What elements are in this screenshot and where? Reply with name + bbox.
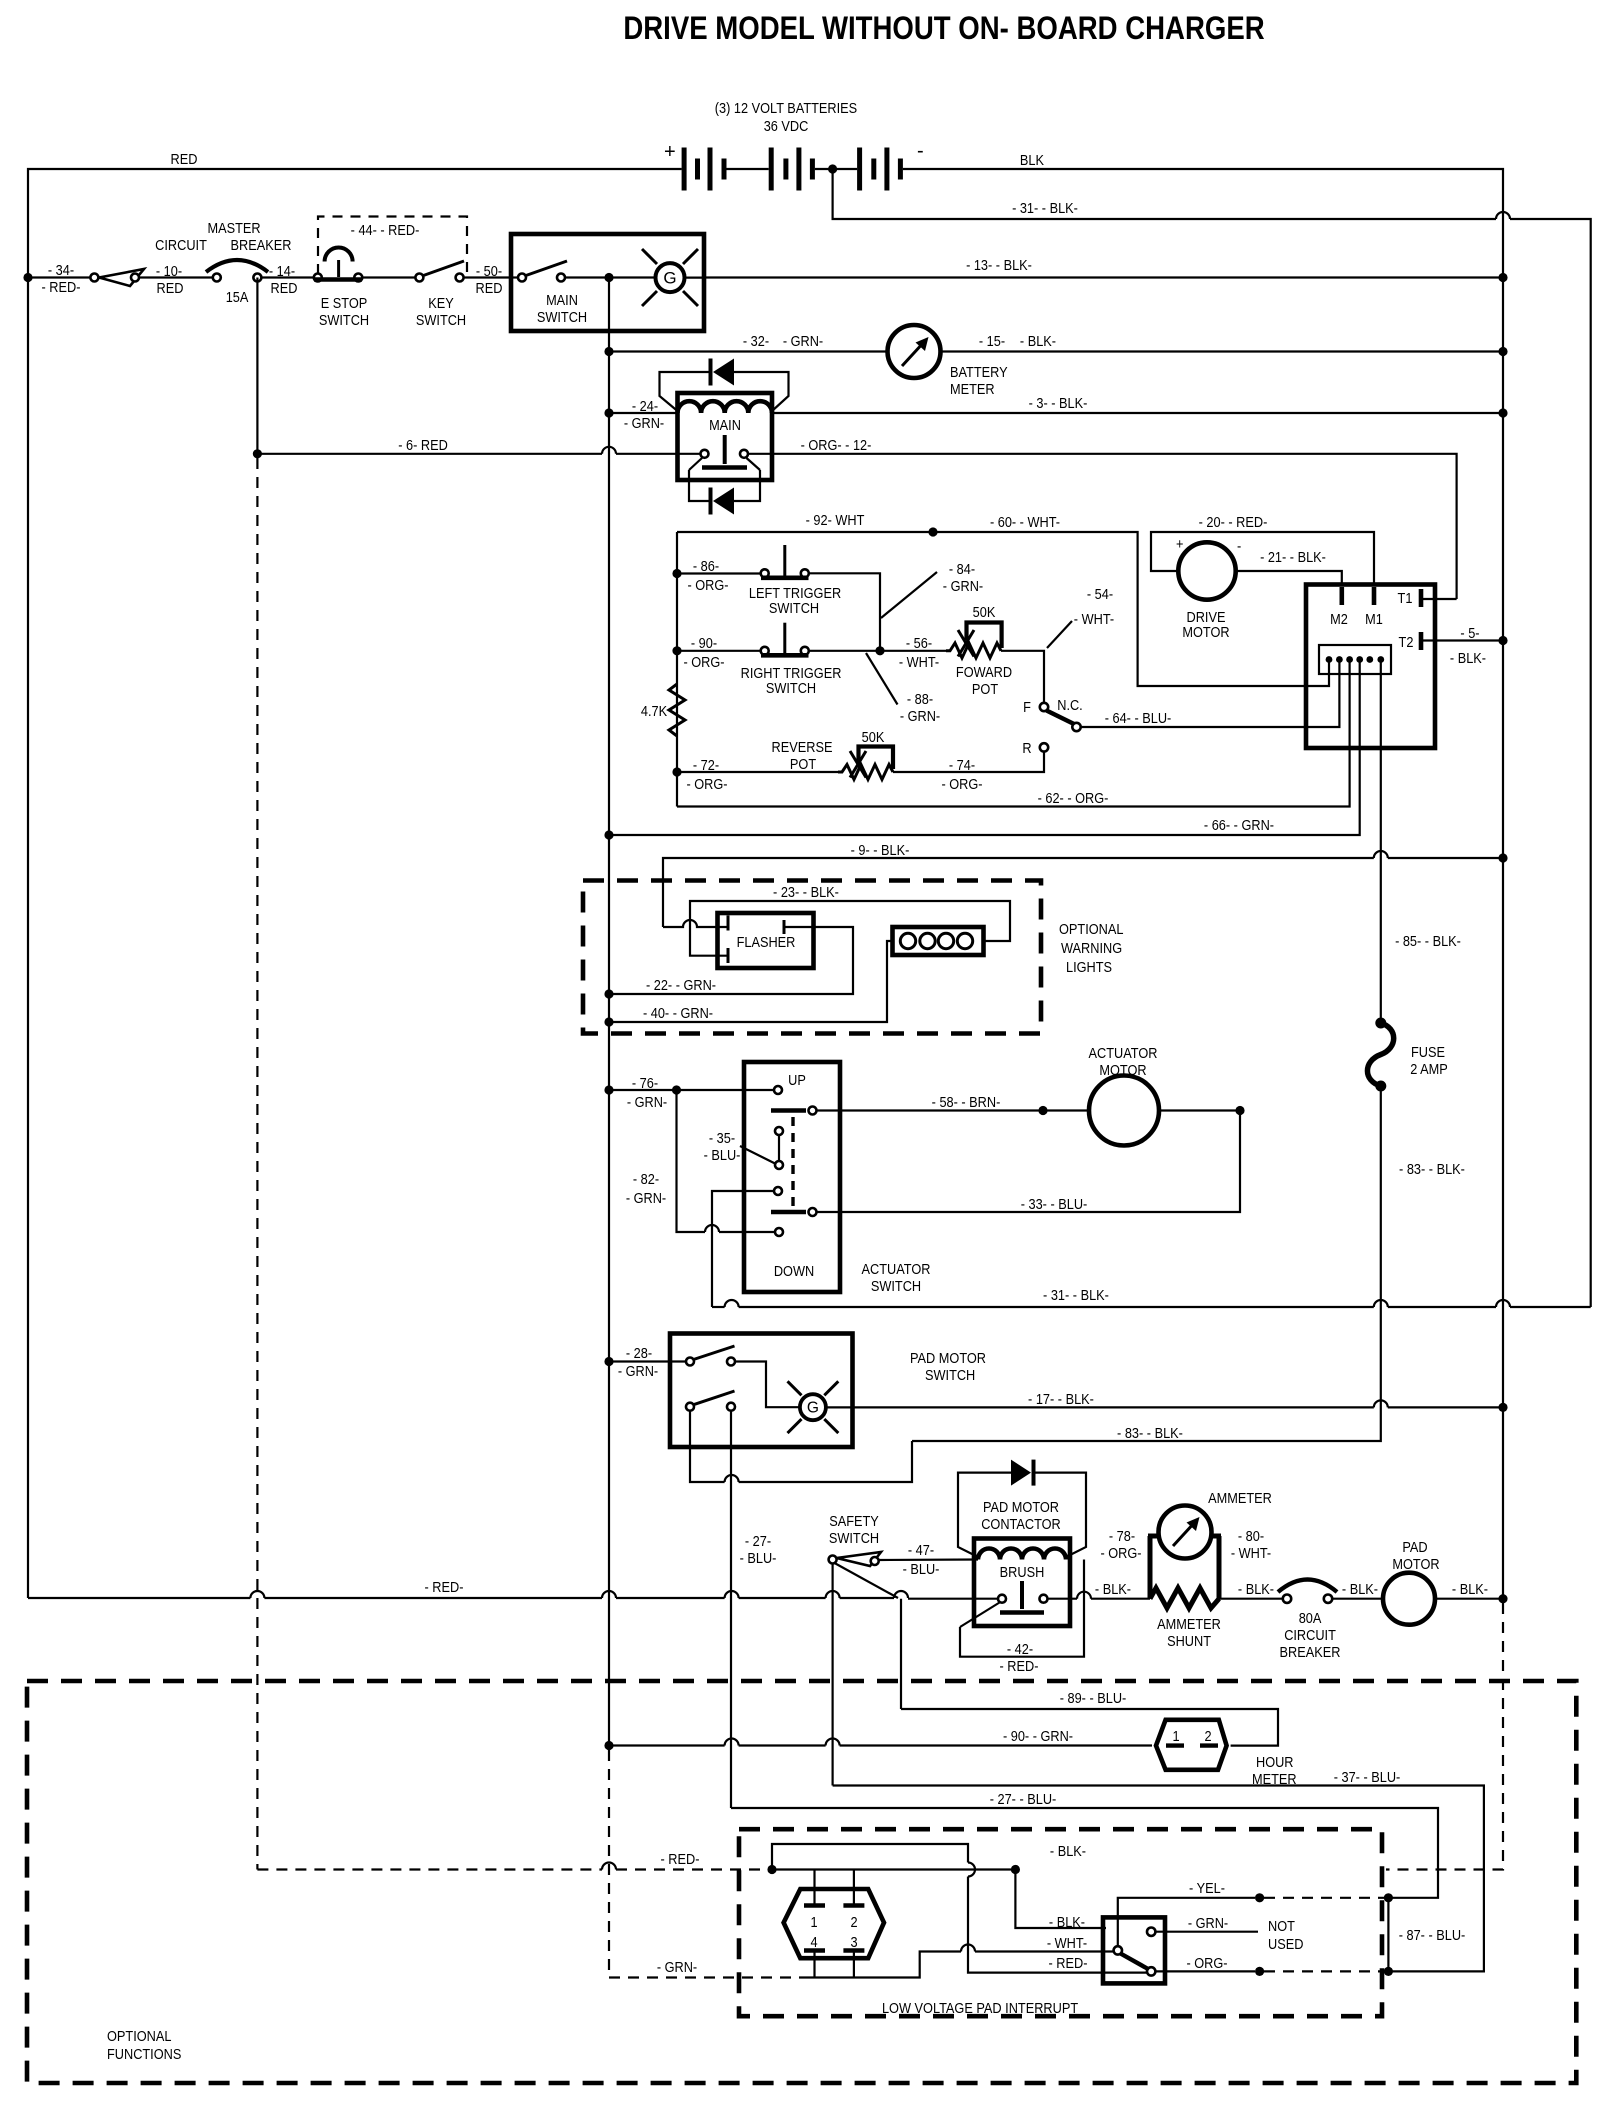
svg-text:- 88-: - 88- bbox=[907, 691, 933, 707]
controller box bbox=[1306, 585, 1435, 749]
svg-text:- 42-: - 42- bbox=[1007, 1641, 1033, 1657]
svg-text:- 27-: - 27- bbox=[745, 1533, 771, 1549]
wire hexagon pin1 bbox=[813, 1870, 815, 1906]
svg-text:MOTOR: MOTOR bbox=[1392, 1556, 1439, 1572]
svg-text:R: R bbox=[1022, 740, 1031, 756]
pin M2 bbox=[1340, 587, 1345, 605]
pad motor switch box bbox=[670, 1334, 853, 1448]
wire left trigger to right vertical bbox=[809, 573, 880, 651]
svg-text:SAFETY: SAFETY bbox=[829, 1513, 879, 1529]
svg-text:- 47-: - 47- bbox=[908, 1542, 934, 1558]
wire pot to F corner bbox=[1001, 651, 1044, 703]
svg-text:- 86-: - 86- bbox=[693, 558, 719, 574]
svg-text:DRIVE: DRIVE bbox=[1187, 609, 1226, 625]
svg-text:LEFT TRIGGER: LEFT TRIGGER bbox=[749, 585, 841, 601]
svg-text:MAIN: MAIN bbox=[546, 292, 578, 308]
toggle switch S10 bbox=[1114, 1928, 1156, 1976]
svg-text:LIGHTS: LIGHTS bbox=[1066, 959, 1112, 975]
svg-text:- GRN-: - GRN- bbox=[627, 1094, 667, 1110]
svg-text:- ORG-: - ORG- bbox=[686, 776, 727, 792]
svg-text:- 92- WHT: - 92- WHT bbox=[806, 512, 865, 528]
svg-text:- BLU-: - BLU- bbox=[740, 1550, 777, 1566]
svg-text:- 83- - BLK-: - 83- - BLK- bbox=[1117, 1425, 1183, 1441]
svg-text:2 AMP: 2 AMP bbox=[1410, 1061, 1448, 1077]
svg-text:RIGHT TRIGGER: RIGHT TRIGGER bbox=[741, 665, 842, 681]
svg-text:- 15-: - 15- bbox=[979, 333, 1005, 349]
svg-text:POT: POT bbox=[972, 681, 999, 697]
svg-text:- ORG-: - ORG- bbox=[1100, 1545, 1141, 1561]
optional warning lights dashed box bbox=[583, 881, 1041, 1034]
svg-text:G: G bbox=[807, 1400, 819, 1417]
node 86 tap bbox=[672, 569, 681, 578]
svg-text:1: 1 bbox=[1172, 1728, 1179, 1744]
svg-text:- 40- - GRN-: - 40- - GRN- bbox=[643, 1005, 713, 1021]
svg-text:80A: 80A bbox=[1299, 1610, 1323, 1626]
svg-text:- WHT-: - WHT- bbox=[1047, 1935, 1087, 1951]
svg-text:POT: POT bbox=[790, 756, 817, 772]
svg-text:- 37- - BLU-: - 37- - BLU- bbox=[1334, 1769, 1401, 1785]
wire safety pivot down to 37 bbox=[831, 1564, 833, 1786]
svg-text:BREAKER: BREAKER bbox=[231, 237, 292, 253]
svg-text:METER: METER bbox=[950, 381, 995, 397]
svg-text:G: G bbox=[663, 269, 676, 288]
lamp G (pad motor switch) bbox=[788, 1381, 839, 1433]
svg-text:SWITCH: SWITCH bbox=[829, 1530, 879, 1546]
svg-text:1: 1 bbox=[810, 1914, 817, 1930]
svg-text:15A: 15A bbox=[226, 289, 250, 305]
pad motor contactor contact bbox=[998, 1581, 1048, 1613]
svg-text:- BLK-: - BLK- bbox=[1450, 650, 1486, 666]
svg-text:- 89- - BLU-: - 89- - BLU- bbox=[1060, 1690, 1127, 1706]
svg-text:WARNING: WARNING bbox=[1061, 940, 1122, 956]
svg-text:2: 2 bbox=[1204, 1728, 1211, 1744]
svg-text:T1: T1 bbox=[1398, 590, 1413, 606]
lamp G (main switch) bbox=[642, 249, 704, 306]
hexagon connector J3 bbox=[784, 1889, 884, 1958]
svg-text:- ORG-: - ORG- bbox=[687, 577, 728, 593]
node RED row tap bbox=[767, 1865, 776, 1874]
svg-text:BREAKER: BREAKER bbox=[1280, 1644, 1341, 1660]
svg-text:- 28-: - 28- bbox=[626, 1345, 652, 1361]
svg-text:N.C.: N.C. bbox=[1057, 697, 1083, 713]
node RED/BLK junction bbox=[1011, 1865, 1020, 1874]
flasher box bbox=[718, 913, 814, 968]
diode D3 (pad motor contactor) bbox=[958, 1460, 1086, 1557]
svg-text:-: - bbox=[1237, 538, 1241, 554]
connector pins bbox=[1326, 656, 1385, 663]
svg-text:- 82-: - 82- bbox=[633, 1171, 659, 1187]
pad motor switch S8b bbox=[686, 1391, 735, 1411]
svg-text:- 60- - WHT-: - 60- - WHT- bbox=[990, 514, 1060, 530]
svg-text:- 90-: - 90- bbox=[691, 635, 717, 651]
svg-text:- 66- - GRN-: - 66- - GRN- bbox=[1204, 817, 1274, 833]
svg-text:- 84-: - 84- bbox=[949, 561, 975, 577]
svg-text:SWITCH: SWITCH bbox=[766, 680, 816, 696]
node left rail / master row bbox=[23, 273, 32, 282]
svg-text:- RED-: - RED- bbox=[1049, 1955, 1088, 1971]
svg-text:AMMETER: AMMETER bbox=[1208, 1490, 1272, 1506]
node 92/60 splice bbox=[928, 527, 937, 536]
svg-text:SWITCH: SWITCH bbox=[537, 309, 587, 325]
svg-text:CIRCUIT: CIRCUIT bbox=[155, 237, 207, 253]
svg-text:- 64- - BLU-: - 64- - BLU- bbox=[1105, 710, 1172, 726]
svg-text:- RED-: - RED- bbox=[42, 279, 81, 295]
svg-text:- BLK-: - BLK- bbox=[1238, 1581, 1274, 1597]
wire hexagon pin3 bbox=[853, 1951, 855, 1978]
svg-text:E STOP: E STOP bbox=[321, 295, 368, 311]
svg-text:- BLK-: - BLK- bbox=[1452, 1581, 1488, 1597]
svg-text:- 62- - ORG-: - 62- - ORG- bbox=[1038, 790, 1109, 806]
svg-text:- 6- RED: - 6- RED bbox=[398, 437, 448, 453]
actuator switch box bbox=[744, 1062, 840, 1292]
svg-text:- BLK-: - BLK- bbox=[1020, 333, 1056, 349]
svg-text:4: 4 bbox=[810, 1934, 817, 1950]
svg-text:M2: M2 bbox=[1330, 611, 1348, 627]
svg-text:F: F bbox=[1023, 699, 1031, 715]
svg-text:FLASHER: FLASHER bbox=[737, 934, 796, 950]
svg-text:- BLK-: - BLK- bbox=[1049, 1914, 1085, 1930]
svg-text:SWITCH: SWITCH bbox=[319, 312, 369, 328]
svg-text:- BLK-: - BLK- bbox=[1342, 1581, 1378, 1597]
svg-text:- 85- - BLK-: - 85- - BLK- bbox=[1395, 933, 1461, 949]
svg-text:- 80-: - 80- bbox=[1238, 1528, 1264, 1544]
svg-text:- ORG-: - ORG- bbox=[1186, 1955, 1227, 1971]
svg-text:- 72-: - 72- bbox=[693, 757, 719, 773]
svg-text:- 33- - BLU-: - 33- - BLU- bbox=[1021, 1196, 1088, 1212]
svg-text:+: + bbox=[664, 141, 676, 163]
svg-text:- GRN-: - GRN- bbox=[618, 1363, 658, 1379]
svg-text:M1: M1 bbox=[1365, 611, 1383, 627]
svg-text:- 78-: - 78- bbox=[1109, 1528, 1135, 1544]
svg-text:- BLU-: - BLU- bbox=[704, 1147, 741, 1163]
wire E stop to key switch bbox=[362, 276, 415, 278]
actuator switch terminals bbox=[771, 1086, 817, 1236]
svg-text:50K: 50K bbox=[973, 604, 996, 620]
svg-text:2: 2 bbox=[850, 1914, 857, 1930]
wire bus x=609 (main switch down to -90-) bbox=[608, 278, 610, 1746]
svg-text:- 21- - BLK-: - 21- - BLK- bbox=[1260, 549, 1326, 565]
svg-text:- 90- - GRN-: - 90- - GRN- bbox=[1003, 1728, 1073, 1744]
svg-text:SWITCH: SWITCH bbox=[416, 312, 466, 328]
svg-text:RED: RED bbox=[157, 280, 184, 296]
wire dashed GRN drop (x=609) bbox=[608, 1750, 610, 1978]
wire dashed BLK bus drop (x=1503) bbox=[1386, 1603, 1503, 1870]
svg-text:- 35-: - 35- bbox=[709, 1130, 735, 1146]
master switch S1 bbox=[90, 269, 144, 286]
wire hexagon pin2 bbox=[853, 1870, 855, 1906]
main switch S4 bbox=[511, 261, 656, 282]
svg-text:36 VDC: 36 VDC bbox=[764, 118, 809, 134]
diode D1 (main contactor top) bbox=[660, 359, 789, 412]
pad motor switch S8a bbox=[686, 1346, 735, 1366]
wire RED row inside box bbox=[772, 1868, 1011, 1870]
node battery center tap bbox=[828, 164, 837, 173]
wire fuse to pad area bbox=[912, 1086, 1381, 1441]
wire BLK to toggle bbox=[1015, 1870, 1106, 1929]
flasher terminals bbox=[727, 916, 730, 931]
main contactor K1 box bbox=[678, 393, 773, 480]
main contactor contact bbox=[689, 435, 760, 470]
svg-text:BATTERY: BATTERY bbox=[950, 364, 1008, 380]
svg-text:- 87- - BLU-: - 87- - BLU- bbox=[1399, 1927, 1466, 1943]
svg-text:ACTUATOR: ACTUATOR bbox=[1089, 1045, 1158, 1061]
svg-text:- GRN-: - GRN- bbox=[657, 1959, 697, 1975]
svg-text:- 83- - BLK-: - 83- - BLK- bbox=[1399, 1161, 1465, 1177]
svg-text:FUSE: FUSE bbox=[1411, 1044, 1445, 1060]
node trigger outputs joined bbox=[875, 646, 884, 655]
svg-text:- 22- - GRN-: - 22- - GRN- bbox=[646, 977, 716, 993]
warning light bar bbox=[893, 927, 984, 955]
svg-text:SWITCH: SWITCH bbox=[769, 600, 819, 616]
svg-text:RED: RED bbox=[476, 280, 503, 296]
controller connector J1 bbox=[1319, 645, 1391, 674]
svg-text:USED: USED bbox=[1268, 1936, 1304, 1952]
svg-text:RED: RED bbox=[171, 151, 198, 167]
pin M1 bbox=[1372, 587, 1377, 605]
svg-text:- RED-: - RED- bbox=[661, 1851, 700, 1867]
svg-text:PAD MOTOR: PAD MOTOR bbox=[983, 1499, 1059, 1515]
svg-text:- 44- - RED-: - 44- - RED- bbox=[351, 222, 420, 238]
svg-text:-: - bbox=[917, 140, 924, 162]
svg-text:- BLU-: - BLU- bbox=[903, 1561, 940, 1577]
wire trigger left bus bbox=[676, 532, 678, 807]
svg-text:- 56-: - 56- bbox=[906, 635, 932, 651]
svg-text:RED: RED bbox=[271, 280, 298, 296]
svg-text:- 58- - BRN-: - 58- - BRN- bbox=[932, 1094, 1001, 1110]
battery BT1 (3x12V) bbox=[664, 140, 924, 191]
svg-text:REVERSE: REVERSE bbox=[772, 739, 833, 755]
svg-text:NOT: NOT bbox=[1268, 1918, 1296, 1934]
svg-text:- ORG-: - ORG- bbox=[683, 654, 724, 670]
main switch box bbox=[511, 234, 704, 331]
svg-text:- WHT-: - WHT- bbox=[1074, 611, 1114, 627]
svg-text:- 32-: - 32- bbox=[743, 333, 769, 349]
svg-text:UP: UP bbox=[788, 1072, 806, 1088]
wire hexagon pin4 bbox=[813, 1951, 815, 1978]
low voltage pad interrupt dashed box bbox=[739, 1829, 1382, 2016]
svg-text:AMMETER: AMMETER bbox=[1157, 1616, 1221, 1632]
svg-text:- 54-: - 54- bbox=[1087, 586, 1113, 602]
svg-text:- 34-: - 34- bbox=[48, 262, 74, 278]
node 90 tap bbox=[672, 646, 681, 655]
svg-text:SWITCH: SWITCH bbox=[925, 1367, 975, 1383]
svg-text:- GRN-: - GRN- bbox=[900, 708, 940, 724]
svg-text:- GRN-: - GRN- bbox=[626, 1190, 666, 1206]
optional functions dashed box bbox=[27, 1681, 1576, 2083]
svg-text:LOW VOLTAGE PAD INTERRUPT: LOW VOLTAGE PAD INTERRUPT bbox=[882, 2000, 1079, 2016]
svg-text:T2: T2 bbox=[1399, 634, 1414, 650]
svg-text:OPTIONAL: OPTIONAL bbox=[107, 2028, 172, 2044]
svg-text:SHUNT: SHUNT bbox=[1167, 1633, 1212, 1649]
svg-text:- 23- - BLK-: - 23- - BLK- bbox=[773, 884, 839, 900]
wire dashed RED drop (x=258) bbox=[256, 458, 258, 1870]
svg-text:- 17- - BLK-: - 17- - BLK- bbox=[1028, 1391, 1094, 1407]
svg-text:- 31- - BLK-: - 31- - BLK- bbox=[1012, 200, 1078, 216]
svg-text:- YEL-: - YEL- bbox=[1189, 1880, 1225, 1896]
svg-text:MASTER: MASTER bbox=[207, 220, 260, 236]
toggle switch S10 box bbox=[1103, 1917, 1165, 1983]
svg-text:- 3- - BLK-: - 3- - BLK- bbox=[1029, 395, 1088, 411]
svg-text:PAD MOTOR: PAD MOTOR bbox=[910, 1350, 986, 1366]
svg-text:CONTACTOR: CONTACTOR bbox=[981, 1516, 1061, 1532]
svg-text:50K: 50K bbox=[862, 729, 885, 745]
svg-text:- GRN-: - GRN- bbox=[783, 333, 823, 349]
svg-text:- BLK-: - BLK- bbox=[1050, 1843, 1086, 1859]
svg-text:- ORG- - 12-: - ORG- - 12- bbox=[801, 437, 872, 453]
wire RED loop to toggle bbox=[772, 1844, 968, 1870]
pad motor contactor coil bbox=[978, 1549, 1066, 1560]
svg-text:- 76-: - 76- bbox=[632, 1075, 658, 1091]
wire safety common down to 89 bbox=[900, 1599, 902, 1709]
wire pin6 to fuse bbox=[1380, 662, 1382, 1022]
svg-text:3: 3 bbox=[850, 1934, 857, 1950]
svg-text:PAD: PAD bbox=[1402, 1539, 1427, 1555]
svg-text:- 27- - BLU-: - 27- - BLU- bbox=[990, 1791, 1057, 1807]
svg-text:ACTUATOR: ACTUATOR bbox=[862, 1261, 931, 1277]
svg-text:- GRN-: - GRN- bbox=[624, 415, 664, 431]
svg-text:KEY: KEY bbox=[428, 295, 454, 311]
svg-text:- WHT-: - WHT- bbox=[899, 654, 939, 670]
svg-text:- 9- - BLK-: - 9- - BLK- bbox=[851, 842, 910, 858]
svg-text:- 74-: - 74- bbox=[949, 757, 975, 773]
svg-text:- RED-: - RED- bbox=[1000, 1658, 1039, 1674]
svg-text:MOTOR: MOTOR bbox=[1182, 624, 1229, 640]
svg-text:- 24-: - 24- bbox=[632, 398, 658, 414]
pad motor contactor K2 box bbox=[974, 1539, 1070, 1627]
svg-text:OPTIONAL: OPTIONAL bbox=[1059, 921, 1124, 937]
svg-text:- 5-: - 5- bbox=[1460, 625, 1479, 641]
wire flasher feed (from 9 BLK) bbox=[663, 920, 728, 927]
svg-text:BLK: BLK bbox=[1020, 152, 1044, 168]
svg-text:DOWN: DOWN bbox=[774, 1263, 814, 1279]
diode D2 (main contactor bottom) bbox=[689, 470, 760, 515]
svg-text:MAIN: MAIN bbox=[709, 417, 741, 433]
node main switch / bus bbox=[604, 273, 613, 282]
svg-text:+: + bbox=[1176, 536, 1183, 552]
node 72 tap bbox=[672, 767, 681, 776]
svg-text:- 31- - BLK-: - 31- - BLK- bbox=[1043, 1287, 1109, 1303]
wire 31 BLK to middle contact bbox=[712, 1191, 774, 1307]
svg-text:- GRN-: - GRN- bbox=[943, 578, 983, 594]
svg-text:DRIVE MODEL WITHOUT ON- BOARD: DRIVE MODEL WITHOUT ON- BOARD CHARGER bbox=[623, 11, 1264, 46]
svg-text:(3) 12 VOLT BATTERIES: (3) 12 VOLT BATTERIES bbox=[715, 100, 857, 116]
svg-text:CIRCUIT: CIRCUIT bbox=[1284, 1627, 1336, 1643]
svg-text:- GRN-: - GRN- bbox=[1188, 1915, 1228, 1931]
svg-text:BRUSH: BRUSH bbox=[1000, 1564, 1045, 1580]
main contactor coil bbox=[678, 401, 773, 413]
svg-text:HOUR: HOUR bbox=[1256, 1754, 1294, 1770]
svg-text:- BLK-: - BLK- bbox=[1095, 1581, 1131, 1597]
svg-text:- 20- - RED-: - 20- - RED- bbox=[1199, 514, 1268, 530]
svg-text:- WHT-: - WHT- bbox=[1231, 1545, 1271, 1561]
svg-text:- 13- - BLK-: - 13- - BLK- bbox=[966, 257, 1032, 273]
svg-text:SWITCH: SWITCH bbox=[871, 1278, 921, 1294]
svg-text:FUNCTIONS: FUNCTIONS bbox=[107, 2046, 181, 2062]
svg-text:- RED-: - RED- bbox=[425, 1579, 464, 1595]
svg-text:FOWARD: FOWARD bbox=[956, 664, 1012, 680]
svg-text:4.7K: 4.7K bbox=[641, 703, 667, 719]
svg-text:- ORG-: - ORG- bbox=[941, 776, 982, 792]
wire S8a to lamp bbox=[735, 1362, 800, 1408]
